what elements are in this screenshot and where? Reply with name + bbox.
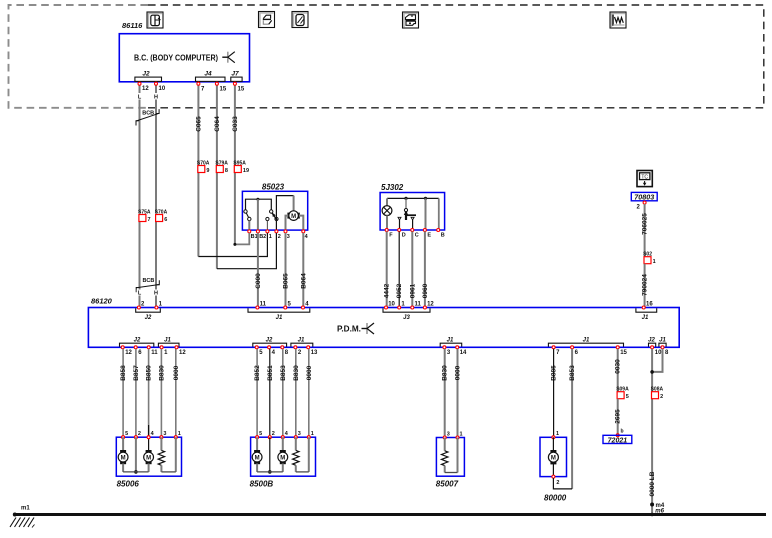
wire C000 from 85023 pin B2 to P.D.M. J1 pin 11 — [257, 233, 259, 308]
svg-text:14: 14 — [460, 350, 467, 356]
svg-text:P.D.M.: P.D.M. — [337, 325, 361, 334]
wire 0000 from P.D.M. pin 10 to ground m4/m6 — [651, 349, 653, 515]
connector J2 on P.D.M. bottom far right — [649, 343, 656, 346]
wire rail2 to motor top — [293, 196, 295, 211]
svg-text:B852: B852 — [254, 365, 261, 381]
svg-text:3: 3 — [447, 431, 450, 437]
svg-text:B858: B858 — [120, 365, 127, 381]
svg-text:B065: B065 — [283, 273, 290, 289]
svg-text:86120: 86120 — [91, 297, 113, 306]
wire from contact to pin B1 — [248, 221, 250, 232]
svg-text:5: 5 — [626, 394, 629, 400]
svg-text:C065: C065 — [195, 116, 202, 132]
inline connector S95A pin 19 — [234, 166, 241, 173]
svg-text:B2: B2 — [259, 234, 266, 240]
svg-text:15: 15 — [220, 87, 227, 93]
resistor in 8500B — [295, 437, 297, 450]
svg-text:S79A: S79A — [215, 160, 228, 166]
svg-text:B857: B857 — [133, 365, 140, 381]
wire 0030 from P.D.M. pin 15 — [617, 349, 619, 392]
wire B857 from P.D.M. to 85006 — [135, 349, 137, 437]
icon door lock — [403, 12, 419, 28]
wire C065 from B.C. J4 pin 7 — [197, 84, 199, 257]
svg-text:2: 2 — [556, 480, 559, 486]
svg-text:2: 2 — [138, 431, 141, 437]
svg-text:J2: J2 — [142, 71, 150, 78]
svg-text:10: 10 — [159, 86, 166, 92]
pins P.D.M. bottom centre group — [443, 346, 446, 349]
switch lever in 5J302 — [405, 198, 407, 208]
svg-text:B1: B1 — [251, 234, 258, 240]
wire pin1 down in 85007 — [457, 438, 459, 473]
resistor in 85007 — [444, 438, 446, 451]
wire lamp to pin F — [386, 216, 388, 231]
svg-text:B830: B830 — [293, 365, 300, 381]
pin 5 P.D.M. J1 top — [284, 306, 287, 309]
pin 2 of 80000 — [552, 475, 555, 478]
svg-text:B850: B850 — [146, 365, 153, 381]
svg-text:B: B — [441, 233, 445, 239]
svg-text:S70A: S70A — [197, 160, 210, 166]
wire 0000 from P.D.M. to 85007 — [457, 349, 459, 438]
pin 16 P.D.M. J1 top right — [642, 306, 645, 309]
svg-text:15: 15 — [238, 87, 245, 93]
svg-text:1: 1 — [460, 431, 463, 437]
svg-text:1: 1 — [556, 431, 559, 437]
pin 7 B.C. J4 — [197, 82, 200, 85]
connector J1 right on P.D.M. top — [636, 308, 657, 312]
svg-text:1: 1 — [269, 234, 272, 240]
svg-text:5: 5 — [125, 431, 128, 437]
motor 2 in 85006 — [144, 452, 154, 462]
wire 2695 to 72021 — [617, 399, 619, 435]
svg-text:C: C — [415, 233, 419, 239]
motor 1 in 85006 — [122, 437, 124, 450]
svg-text:5: 5 — [259, 431, 262, 437]
wire 790024 splice to P.D.M. J1 pin 16 — [644, 264, 646, 308]
svg-text:12: 12 — [427, 302, 434, 308]
wire C065 horizontal to 85023 pin 1 — [198, 233, 267, 257]
pin 1 of 80000 — [552, 436, 555, 439]
wire C064 from B.C. J4 pin 15 — [216, 84, 218, 269]
svg-text:86116: 86116 — [122, 21, 143, 30]
svg-text:S75A: S75A — [138, 209, 151, 215]
bottom rail 85007 — [445, 472, 458, 474]
wire rail to pin E — [425, 198, 427, 230]
pin 11 P.D.M. J1 top — [256, 306, 259, 309]
svg-text:J2: J2 — [648, 338, 655, 344]
wire 0961 from 5J302 pin C to P.D.M. J3 pin 11 — [411, 232, 413, 308]
svg-text:2: 2 — [660, 394, 663, 400]
wire B830 from P.D.M. to 85007 — [444, 349, 446, 438]
wire pin1 to rail in 8500B — [308, 437, 310, 472]
svg-text:E: E — [427, 233, 431, 239]
svg-text:J3: J3 — [403, 315, 410, 321]
inline connector S70A pin 9 — [198, 166, 205, 173]
left bottom rail 8500B — [257, 471, 283, 473]
ground node m1 — [13, 513, 17, 517]
pins P.D.M. bottom right-mid group — [552, 346, 555, 349]
svg-text:13: 13 — [311, 350, 318, 356]
junction of pins 10 and 8 — [650, 370, 654, 374]
inline connector S09A pin 5 — [617, 392, 624, 399]
svg-text:1: 1 — [311, 431, 314, 437]
svg-text:11: 11 — [260, 302, 267, 308]
connector J3 on P.D.M. top — [383, 308, 430, 312]
pins of 5J302 — [385, 229, 388, 232]
right bottom rail 85006 — [161, 471, 175, 473]
svg-text:1: 1 — [653, 259, 656, 265]
svg-text:J1: J1 — [298, 338, 305, 344]
wire B853 from P.D.M. to 8500B — [282, 349, 284, 437]
svg-text:B853: B853 — [569, 365, 576, 381]
svg-text:9: 9 — [206, 168, 209, 174]
motor in 80000 — [552, 437, 554, 451]
svg-text:10: 10 — [655, 350, 662, 356]
svg-text:C064: C064 — [214, 116, 221, 132]
wire B830 from P.D.M. to 85006 — [160, 349, 162, 437]
icon door open — [259, 12, 275, 28]
svg-text:J1: J1 — [164, 338, 171, 344]
lamp in 5J302 — [386, 198, 388, 205]
pins of 85007 — [443, 436, 446, 439]
svg-text:12: 12 — [179, 350, 186, 356]
connector J1 on P.D.M. bottom mid — [291, 343, 313, 346]
wire pin2 to rail in 85006 — [135, 437, 137, 472]
svg-text:70803: 70803 — [634, 193, 654, 202]
pins of 85023 — [248, 230, 251, 233]
black lower segment wire B850 — [148, 425, 150, 451]
pin 12 B.C. J2 — [138, 82, 141, 85]
connector J4 on B.C. — [196, 77, 226, 81]
wire internal rail of 5J302 — [387, 197, 439, 199]
wire B830 from P.D.M. to 8500B — [295, 349, 297, 437]
pins P.D.M. bottom left group — [121, 346, 124, 349]
svg-text:4442: 4442 — [384, 283, 391, 298]
wire contact to pin C — [412, 220, 414, 230]
svg-text:B853: B853 — [280, 365, 287, 381]
svg-text:M: M — [146, 456, 151, 462]
svg-text:S09A: S09A — [616, 387, 629, 393]
svg-text:12: 12 — [142, 86, 149, 92]
switch contacts 5J302 — [398, 217, 401, 220]
module 70803 — [631, 192, 657, 200]
ground node m4 — [650, 503, 654, 507]
connector J1 on P.D.M. bottom left — [158, 343, 179, 346]
icon window-lift function — [147, 12, 163, 28]
svg-text:11: 11 — [151, 350, 158, 356]
svg-text:0000: 0000 — [173, 365, 180, 380]
module 72021 — [616, 434, 619, 437]
inline connector S08A pin 2 — [652, 392, 659, 399]
wire 0952 from 5J302 pin D to P.D.M. J3 pin 1 — [398, 232, 400, 308]
pin 15 B.C. J4 — [215, 82, 218, 85]
svg-text:0961: 0961 — [409, 283, 416, 298]
svg-text:16: 16 — [646, 302, 653, 308]
svg-text:S70A: S70A — [155, 209, 168, 215]
wire motor left to pin 3 — [286, 216, 289, 232]
right bottom rail 8500B — [296, 471, 309, 473]
svg-text:M: M — [551, 456, 556, 462]
wire B850 from P.D.M. to 85006 — [148, 349, 150, 437]
wire pin2 to rail in 8500B — [269, 437, 271, 472]
wire motor right to pin 4 — [299, 216, 303, 232]
svg-text:J1: J1 — [447, 338, 454, 344]
motor 1 in 8500B — [256, 437, 258, 450]
svg-text:80000: 80000 — [544, 494, 567, 503]
pins P.D.M. bottom mid group — [255, 346, 258, 349]
svg-text:S08A: S08A — [651, 387, 664, 393]
svg-text:M: M — [255, 456, 260, 462]
svg-text:B830: B830 — [158, 365, 165, 381]
wire B852 from P.D.M. to 8500B — [256, 349, 258, 437]
svg-text:10: 10 — [388, 302, 395, 308]
svg-text:1: 1 — [178, 431, 181, 437]
junction B2 rail — [256, 198, 259, 201]
svg-text:2695: 2695 — [615, 409, 622, 424]
svg-text:BCB: BCB — [142, 278, 154, 284]
svg-text:12: 12 — [125, 350, 132, 356]
wire from P.D.M. pin 8 join — [652, 349, 662, 372]
svg-text:C033: C033 — [232, 116, 239, 132]
svg-text:B830: B830 — [442, 365, 449, 381]
wire rail to pin B2 — [257, 199, 259, 231]
pin 1 P.D.M. J3 top — [398, 306, 401, 309]
pins P.D.M. bottom far right group — [651, 346, 654, 349]
switch contact left in 85023 — [244, 210, 247, 213]
pin 2 P.D.M. J2 top — [137, 306, 140, 309]
svg-text:0952: 0952 — [396, 283, 403, 298]
svg-text:3: 3 — [287, 234, 290, 240]
inline connector S70A pin 6 — [156, 215, 163, 222]
wire C064 horizontal to 85023 pin 2 — [217, 233, 277, 269]
pin 1 P.D.M. J2 top — [155, 306, 158, 309]
wire B853 from P.D.M. pin 6 — [571, 349, 573, 489]
svg-text:2: 2 — [278, 234, 281, 240]
svg-text:6: 6 — [164, 217, 167, 223]
svg-text:S02: S02 — [643, 252, 652, 258]
connector J2 on P.D.M. bottom mid — [253, 343, 287, 346]
svg-text:B064: B064 — [300, 273, 307, 289]
connector J2 on B.C. — [135, 77, 162, 81]
pin 11 P.D.M. J3 top — [411, 306, 414, 309]
wire B885 from P.D.M. pin 7 to 80000 pin 1 — [553, 349, 555, 438]
svg-text:TC: TC — [641, 174, 648, 180]
svg-text:19: 19 — [243, 168, 249, 174]
wire rail 2 and to pin 2 — [276, 196, 293, 232]
resistor in 85006 — [160, 437, 162, 450]
icon trailer/TC module — [637, 171, 652, 187]
svg-text:M: M — [121, 456, 126, 462]
wire B851 from P.D.M. to 8500B — [269, 349, 271, 437]
wire contact to pin D — [399, 220, 401, 230]
pins of 85006 — [122, 436, 125, 439]
pin 4 P.D.M. J1 top — [302, 306, 305, 309]
svg-text:b: b — [621, 429, 624, 435]
svg-text:85007: 85007 — [436, 480, 459, 489]
pin 10 B.C. J2 — [155, 82, 158, 85]
svg-text:J4: J4 — [204, 71, 212, 78]
svg-text:m1: m1 — [21, 506, 30, 512]
wire B064 from 85023 pin 4 to P.D.M. J1 pin 4 — [302, 233, 304, 308]
connector J2 on P.D.M. top — [136, 308, 161, 312]
connector J1 on P.D.M. bottom right-mid — [548, 343, 623, 346]
svg-text:J2: J2 — [145, 315, 152, 321]
svg-text:J2: J2 — [266, 338, 273, 344]
svg-text:H: H — [154, 95, 158, 101]
connector J7 on B.C. — [231, 77, 242, 81]
svg-text:0000: 0000 — [306, 365, 313, 380]
wire pin1 to rail in 85006 — [175, 437, 177, 472]
wire C033 from B.C. J7 pin 15 — [234, 84, 236, 244]
connector J2 on P.D.M. bottom left — [120, 343, 154, 346]
svg-text:J1: J1 — [659, 338, 666, 344]
pin 10 P.D.M. J3 top — [385, 306, 388, 309]
wire 85023 pin B1 to C033 — [235, 233, 249, 245]
svg-text:3: 3 — [163, 431, 166, 437]
svg-text:M: M — [291, 214, 296, 220]
svg-text:B885: B885 — [551, 365, 558, 381]
ground symbol hatching — [10, 518, 16, 528]
pin 2 of 70803 — [643, 201, 646, 204]
svg-text:H: H — [154, 291, 158, 297]
svg-text:B.C. (BODY COMPUTER): B.C. (BODY COMPUTER) — [134, 54, 218, 63]
wire internal rail 1 of 85023 — [246, 199, 272, 210]
svg-text:S95A: S95A — [233, 160, 246, 166]
svg-text:790024: 790024 — [642, 274, 649, 296]
wire CAN L from B.C. J2 pin 12 — [139, 84, 141, 93]
svg-text:J1: J1 — [642, 315, 649, 321]
wire rail to pin B — [438, 198, 440, 230]
motor in 85023 — [289, 211, 299, 221]
svg-text:0000: 0000 — [455, 365, 462, 380]
motor 2 in 8500B — [282, 437, 284, 450]
wire 0000 from P.D.M. to 8500B — [308, 349, 310, 437]
svg-text:7: 7 — [148, 217, 151, 223]
connector J1 on P.D.M. bottom centre — [440, 343, 462, 346]
svg-text:15: 15 — [620, 350, 627, 356]
wire 80000 pin 2 return — [553, 478, 572, 489]
wire CAN H from B.C. J2 pin 10 — [155, 84, 157, 93]
svg-text:0000 LB: 0000 LB — [649, 471, 656, 496]
wire 0960 from 5J302 pin E to P.D.M. J3 pin 12 — [424, 232, 426, 308]
svg-text:8: 8 — [225, 168, 228, 174]
svg-text:706025: 706025 — [642, 213, 649, 235]
svg-text:85023: 85023 — [262, 183, 285, 192]
wire B858 from P.D.M. to 85006 — [122, 349, 124, 437]
svg-text:J7: J7 — [231, 71, 239, 78]
wire 706025 from 70803 to splice — [644, 204, 646, 257]
svg-text:B851: B851 — [267, 365, 274, 381]
ground bus line — [14, 513, 766, 516]
svg-text:J1: J1 — [583, 338, 590, 344]
wire contact to pin 1 — [266, 221, 268, 232]
dashed enclosure (vehicle interior boundary) — [9, 5, 149, 108]
svg-text:J2: J2 — [134, 338, 141, 344]
switch SPDT in 85023 — [270, 210, 273, 213]
inline connector S79A pin 8 — [216, 166, 223, 173]
connector J1 mid on P.D.M. top — [248, 308, 310, 312]
svg-text:J1: J1 — [276, 315, 283, 321]
svg-text:72021: 72021 — [608, 438, 628, 445]
wire 0000 from P.D.M. to 85006 — [175, 349, 177, 437]
svg-text:D: D — [402, 233, 406, 239]
svg-text:11: 11 — [415, 302, 422, 308]
svg-text:M: M — [280, 456, 285, 462]
pin 12 P.D.M. J3 top — [423, 306, 426, 309]
pin 15 B.C. J7 — [233, 82, 236, 85]
wire B065 from 85023 pin 3 to P.D.M. J1 pin 5 — [285, 233, 287, 308]
wire 4442 from 5J302 pin F to P.D.M. J3 pin 10 — [386, 232, 388, 308]
svg-text:8500B: 8500B — [250, 480, 274, 489]
pins of 8500B — [256, 436, 259, 439]
svg-text:85006: 85006 — [117, 480, 140, 489]
svg-text:2: 2 — [272, 431, 275, 437]
connector J1 on P.D.M. bottom far right — [659, 343, 666, 346]
svg-text:3: 3 — [298, 431, 301, 437]
inline connector S75A pin 7 — [139, 215, 146, 222]
svg-text:0960: 0960 — [422, 283, 429, 298]
icon window/mirror — [292, 12, 308, 28]
icon heated rear window — [610, 12, 626, 28]
svg-text:0030: 0030 — [615, 359, 622, 374]
left bottom rail 85006 — [123, 471, 149, 473]
svg-text:5J302: 5J302 — [381, 183, 404, 192]
inline connector S02 pin 1 — [644, 257, 651, 264]
svg-text:C000: C000 — [255, 273, 262, 289]
